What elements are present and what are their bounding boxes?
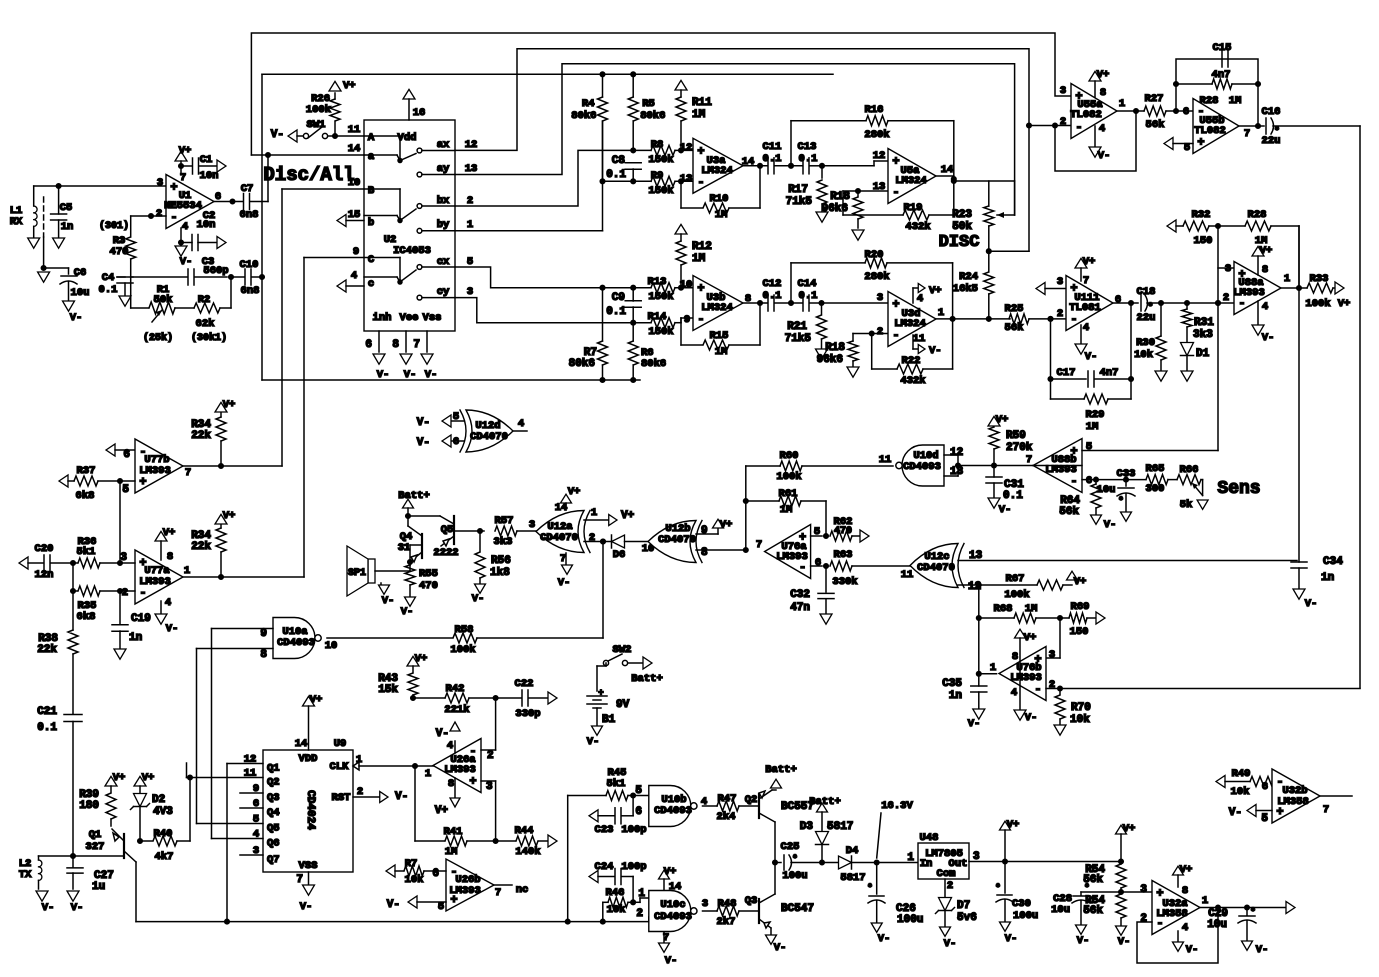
svg-text:R30: R30 — [1136, 337, 1155, 349]
svg-text:5: 5 — [1261, 813, 1268, 825]
svg-text:CD4070: CD4070 — [917, 562, 955, 574]
svg-text:CD4070: CD4070 — [470, 431, 508, 443]
svg-text:C21: C21 — [37, 706, 57, 718]
svg-text:Q4: Q4 — [267, 807, 280, 819]
svg-text:100k: 100k — [450, 644, 475, 656]
svg-text:+: + — [139, 475, 146, 489]
svg-text:4k7: 4k7 — [155, 851, 174, 863]
svg-text:BC547: BC547 — [781, 903, 814, 915]
svg-text:C23: C23 — [595, 824, 614, 836]
svg-text:Q1: Q1 — [89, 829, 102, 841]
svg-text:V-: V- — [395, 791, 408, 803]
svg-text:470: 470 — [110, 246, 129, 258]
svg-text:Batt+: Batt+ — [631, 673, 663, 685]
svg-text:R63: R63 — [834, 549, 853, 561]
svg-text:0.1: 0.1 — [37, 722, 57, 734]
svg-text:5817: 5817 — [827, 821, 853, 833]
svg-text:R4: R4 — [582, 98, 595, 110]
svg-text:V-: V- — [71, 902, 84, 914]
svg-text:1M: 1M — [1229, 95, 1242, 107]
svg-text:56k: 56k — [1005, 322, 1024, 334]
svg-text:11: 11 — [901, 569, 914, 581]
svg-text:LM393: LM393 — [1010, 672, 1042, 684]
svg-text:1n: 1n — [129, 632, 142, 644]
svg-text:470: 470 — [834, 526, 852, 537]
svg-text:6k8: 6k8 — [76, 490, 95, 502]
svg-text:R29: R29 — [1086, 409, 1105, 421]
svg-text:Batt+: Batt+ — [765, 764, 797, 776]
svg-text:R24: R24 — [959, 271, 978, 283]
svg-text:R18: R18 — [825, 342, 845, 354]
svg-text:8: 8 — [1182, 885, 1188, 897]
svg-text:6: 6 — [1262, 781, 1268, 793]
svg-text:LM393: LM393 — [1233, 287, 1265, 299]
svg-text:5: 5 — [467, 256, 473, 268]
svg-text:R12: R12 — [692, 241, 712, 253]
svg-text:100k: 100k — [306, 104, 331, 116]
svg-text:V-: V- — [1262, 332, 1275, 344]
svg-text:CD4093: CD4093 — [903, 461, 941, 473]
svg-text:9: 9 — [701, 525, 708, 537]
svg-text:13: 13 — [465, 163, 478, 175]
svg-text:R19: R19 — [904, 202, 923, 214]
svg-text:12: 12 — [873, 150, 886, 162]
svg-text:Q6: Q6 — [267, 838, 280, 850]
svg-text:5v6: 5v6 — [957, 912, 977, 924]
svg-text:B: B — [368, 185, 375, 197]
svg-text:7: 7 — [1244, 128, 1250, 140]
svg-text:cy: cy — [437, 286, 450, 298]
svg-text:-: - — [892, 186, 899, 200]
svg-text:C30: C30 — [1012, 898, 1031, 910]
svg-text:VSS: VSS — [299, 860, 318, 872]
svg-text:14: 14 — [669, 881, 682, 893]
svg-text:10k: 10k — [607, 904, 626, 916]
svg-text:2: 2 — [487, 750, 494, 762]
svg-text:1n: 1n — [949, 690, 962, 702]
svg-text:2k7: 2k7 — [717, 916, 736, 928]
svg-text:LM393: LM393 — [139, 576, 171, 588]
svg-text:V-: V- — [401, 606, 414, 618]
svg-text:LM324: LM324 — [894, 318, 926, 330]
svg-text:R11: R11 — [692, 97, 712, 109]
svg-text:V-: V- — [300, 901, 313, 913]
svg-text:1: 1 — [1119, 98, 1125, 110]
svg-text:+: + — [892, 155, 899, 169]
svg-text:C14: C14 — [798, 278, 817, 290]
svg-text:6: 6 — [815, 557, 821, 569]
svg-text:R48: R48 — [718, 898, 737, 910]
svg-text:2: 2 — [357, 786, 363, 798]
svg-text:Sens: Sens — [1217, 479, 1260, 499]
svg-text:3: 3 — [1140, 884, 1147, 896]
svg-text:3: 3 — [1049, 649, 1055, 661]
svg-text:5k: 5k — [1180, 499, 1193, 511]
svg-text:*: * — [995, 883, 1000, 893]
svg-text:R41: R41 — [444, 826, 463, 838]
svg-text:R8: R8 — [651, 139, 664, 151]
svg-text:V-: V- — [472, 593, 485, 605]
svg-text:9: 9 — [353, 246, 359, 258]
svg-text:C19: C19 — [131, 613, 151, 625]
svg-text:C7: C7 — [241, 183, 254, 195]
svg-text:R20: R20 — [865, 249, 884, 261]
svg-text:V-: V- — [404, 369, 417, 381]
svg-text:6k8: 6k8 — [77, 611, 96, 623]
svg-text:V-: V- — [944, 938, 957, 950]
svg-text:C10: C10 — [240, 259, 259, 271]
svg-text:4: 4 — [182, 221, 188, 233]
svg-text:R25: R25 — [1005, 303, 1024, 315]
svg-text:8: 8 — [448, 778, 454, 790]
svg-text:96k6: 96k6 — [817, 354, 843, 366]
svg-text:V-: V- — [878, 933, 891, 945]
svg-text:1M: 1M — [715, 346, 728, 358]
svg-text:SW1: SW1 — [307, 119, 326, 131]
svg-text:10k: 10k — [1070, 714, 1090, 726]
svg-text:C8: C8 — [612, 155, 626, 167]
svg-text:0.1: 0.1 — [799, 290, 818, 302]
svg-text:V-: V- — [387, 899, 400, 911]
svg-text:Q1: Q1 — [267, 763, 280, 775]
svg-text:-: - — [1075, 121, 1082, 135]
svg-text:*: * — [1118, 496, 1123, 506]
svg-text:12n: 12n — [35, 569, 54, 581]
svg-text:4: 4 — [1083, 322, 1089, 334]
svg-text:10u: 10u — [1097, 484, 1116, 496]
svg-text:96k6: 96k6 — [822, 203, 848, 215]
svg-text:150k: 150k — [648, 154, 673, 166]
svg-text:C25: C25 — [781, 841, 800, 853]
svg-text:Q5: Q5 — [267, 823, 280, 835]
svg-text:R55: R55 — [419, 568, 438, 580]
svg-text:V-: V- — [1098, 150, 1111, 162]
svg-text:V-: V- — [1104, 519, 1117, 531]
svg-text:4: 4 — [351, 270, 357, 282]
svg-text:b: b — [368, 217, 374, 229]
svg-text:100k: 100k — [1004, 589, 1029, 601]
svg-text:100u: 100u — [1013, 910, 1038, 922]
svg-text:1: 1 — [938, 307, 944, 319]
svg-text:13: 13 — [873, 181, 886, 193]
svg-text:3: 3 — [1057, 276, 1063, 288]
svg-text:4: 4 — [1262, 301, 1268, 313]
svg-text:C13: C13 — [798, 141, 817, 153]
svg-text:10u: 10u — [1051, 904, 1070, 916]
svg-text:Vee: Vee — [400, 312, 419, 324]
svg-text:6: 6 — [635, 806, 642, 818]
svg-text:10n: 10n — [200, 170, 219, 182]
svg-text:CD4093: CD4093 — [654, 805, 692, 817]
svg-text:SP1: SP1 — [348, 568, 366, 579]
svg-text:C33: C33 — [1117, 468, 1136, 480]
svg-text:R61: R61 — [779, 488, 798, 500]
svg-text:V+: V+ — [415, 653, 428, 665]
svg-text:150k: 150k — [648, 326, 673, 338]
svg-text:4: 4 — [165, 597, 171, 609]
svg-text:V-: V- — [271, 129, 284, 141]
svg-text:R31: R31 — [1194, 317, 1214, 329]
svg-text:R23: R23 — [952, 209, 972, 221]
svg-text:-: - — [1070, 475, 1077, 489]
svg-text:150: 150 — [1070, 626, 1089, 638]
svg-text:8: 8 — [701, 547, 708, 559]
svg-text:6n8: 6n8 — [241, 285, 260, 297]
svg-text:R66: R66 — [1180, 464, 1199, 476]
svg-text:0.1: 0.1 — [763, 290, 782, 302]
svg-text:D2: D2 — [152, 794, 165, 806]
svg-text:CD4070: CD4070 — [658, 534, 696, 546]
svg-text:1n: 1n — [61, 221, 74, 233]
svg-text:V+: V+ — [1123, 823, 1136, 835]
svg-text:Vss: Vss — [423, 312, 442, 324]
svg-text:4: 4 — [447, 740, 453, 752]
svg-text:3: 3 — [529, 519, 535, 531]
svg-text:V-: V- — [417, 437, 430, 449]
svg-text:1: 1 — [356, 754, 362, 766]
svg-text:10: 10 — [325, 640, 338, 652]
svg-text:R59: R59 — [1006, 430, 1026, 442]
svg-text:280k: 280k — [864, 129, 889, 141]
svg-text:C34: C34 — [1323, 556, 1343, 568]
svg-text:V+: V+ — [1338, 298, 1351, 310]
svg-text:Q3: Q3 — [745, 895, 758, 907]
svg-text:LM324: LM324 — [895, 175, 927, 187]
svg-text:*: * — [1084, 883, 1089, 893]
svg-text:R2: R2 — [198, 294, 211, 306]
svg-text:by: by — [437, 219, 450, 231]
svg-text:+: + — [170, 181, 177, 195]
svg-text:1M: 1M — [692, 109, 706, 121]
svg-text:LM324: LM324 — [701, 165, 733, 177]
svg-text:V-: V- — [1305, 598, 1318, 610]
svg-text:7: 7 — [296, 874, 303, 886]
svg-text:2222: 2222 — [433, 547, 458, 559]
svg-text:U9: U9 — [334, 738, 347, 750]
svg-text:V+: V+ — [223, 510, 236, 522]
svg-text:6: 6 — [1183, 106, 1189, 118]
svg-text:3: 3 — [877, 292, 883, 304]
svg-text:R70: R70 — [1071, 702, 1091, 714]
svg-text:V+: V+ — [343, 80, 356, 92]
svg-text:62k: 62k — [196, 318, 215, 330]
svg-text:ax: ax — [437, 139, 450, 151]
svg-text:Q2: Q2 — [267, 777, 280, 789]
svg-text:56k: 56k — [1059, 506, 1079, 518]
svg-text:5k1: 5k1 — [607, 778, 626, 790]
svg-text:1M: 1M — [1086, 421, 1099, 433]
svg-text:+: + — [697, 282, 704, 296]
svg-text:10k: 10k — [405, 874, 424, 886]
svg-text:V-: V- — [1118, 936, 1131, 948]
svg-text:D6: D6 — [613, 549, 626, 561]
svg-text:C22: C22 — [515, 678, 534, 690]
svg-text:3k3: 3k3 — [1193, 329, 1213, 341]
svg-text:1: 1 — [184, 565, 190, 577]
svg-text:47n: 47n — [790, 602, 810, 614]
svg-text:V+: V+ — [1007, 819, 1020, 831]
svg-text:TL081: TL081 — [1069, 302, 1101, 314]
svg-text:V+: V+ — [1260, 245, 1273, 257]
svg-text:TX: TX — [19, 869, 32, 881]
svg-text:ay: ay — [437, 163, 450, 175]
svg-text:7: 7 — [1026, 454, 1032, 466]
svg-text:3k3: 3k3 — [494, 536, 513, 548]
svg-text:5: 5 — [635, 785, 642, 797]
svg-text:22k: 22k — [37, 644, 57, 656]
svg-text:C16: C16 — [1262, 106, 1281, 118]
svg-text:D4: D4 — [846, 845, 859, 857]
svg-text:14: 14 — [295, 738, 308, 750]
svg-text:R69: R69 — [1071, 601, 1090, 613]
svg-text:80k6: 80k6 — [641, 358, 666, 370]
svg-text:11: 11 — [879, 454, 892, 466]
svg-text:3: 3 — [1060, 85, 1066, 97]
svg-text:-: - — [697, 175, 704, 189]
svg-text:RST: RST — [332, 792, 351, 804]
svg-text:C4: C4 — [102, 272, 115, 284]
svg-text:NE5534: NE5534 — [164, 200, 202, 212]
svg-text:V-: V- — [929, 345, 942, 357]
svg-text:270k: 270k — [1006, 442, 1033, 454]
svg-text:V-: V- — [999, 504, 1012, 516]
svg-text:14: 14 — [941, 164, 954, 176]
svg-text:R47: R47 — [718, 793, 737, 805]
svg-text:V+: V+ — [1024, 632, 1037, 644]
svg-text:5: 5 — [122, 484, 129, 496]
svg-text:1n: 1n — [1321, 572, 1334, 584]
svg-text:R37: R37 — [77, 465, 96, 477]
svg-text:56k: 56k — [1146, 119, 1165, 131]
svg-text:2: 2 — [1223, 292, 1229, 304]
svg-text:16.3V: 16.3V — [881, 800, 913, 812]
svg-text:C: C — [368, 254, 375, 266]
svg-text:(25k): (25k) — [143, 332, 173, 344]
svg-text:V+: V+ — [929, 285, 942, 297]
svg-text:C15: C15 — [1213, 42, 1232, 54]
svg-text:V-: V- — [1005, 933, 1018, 945]
svg-text:D7: D7 — [957, 900, 970, 912]
svg-text:R42: R42 — [446, 683, 465, 695]
svg-text:15: 15 — [348, 209, 361, 221]
svg-text:4: 4 — [1011, 687, 1017, 699]
svg-text:1k8: 1k8 — [490, 567, 510, 579]
svg-text:-: - — [697, 313, 704, 327]
svg-text:U10c: U10c — [660, 899, 685, 911]
svg-text:+: + — [1197, 136, 1204, 150]
svg-text:150k: 150k — [648, 291, 673, 303]
svg-text:100p: 100p — [621, 824, 646, 836]
svg-text:-: - — [139, 586, 146, 600]
svg-text:LM358: LM358 — [1156, 908, 1188, 920]
svg-text:V-: V- — [1256, 944, 1269, 956]
svg-text:C35: C35 — [942, 678, 962, 690]
svg-text:22u: 22u — [1262, 135, 1281, 147]
svg-text:+: + — [469, 775, 476, 789]
svg-text:6n8: 6n8 — [240, 209, 259, 221]
svg-text:V-: V- — [70, 312, 83, 324]
svg-text:V-: V- — [166, 623, 179, 635]
svg-text:5817: 5817 — [840, 872, 865, 884]
svg-text:1M: 1M — [1025, 603, 1038, 615]
svg-text:0.1: 0.1 — [99, 284, 118, 296]
svg-text:150k: 150k — [648, 185, 673, 197]
svg-text:4V3: 4V3 — [153, 806, 173, 818]
svg-text:cx: cx — [437, 256, 450, 268]
svg-text:150: 150 — [1194, 235, 1213, 247]
svg-text:1u: 1u — [92, 881, 105, 893]
svg-text:R44: R44 — [515, 825, 534, 837]
svg-text:80k6: 80k6 — [571, 110, 596, 122]
svg-text:CLK: CLK — [330, 761, 350, 773]
svg-text:TL082: TL082 — [1194, 125, 1226, 137]
svg-text:R22: R22 — [902, 355, 921, 367]
svg-text:R18: R18 — [830, 191, 850, 203]
svg-text:8: 8 — [392, 339, 399, 351]
svg-text:LM324: LM324 — [701, 302, 733, 314]
svg-text:V-: V- — [42, 902, 55, 914]
svg-text:CD4024: CD4024 — [304, 790, 316, 830]
svg-text:9: 9 — [684, 314, 690, 326]
svg-text:1: 1 — [1284, 273, 1290, 285]
svg-text:C24: C24 — [595, 861, 614, 873]
svg-text:80k6: 80k6 — [640, 110, 665, 122]
svg-text:C6: C6 — [74, 267, 87, 279]
svg-text:10: 10 — [680, 279, 693, 291]
svg-text:50k: 50k — [154, 294, 173, 306]
svg-text:V+: V+ — [1180, 864, 1193, 876]
svg-text:In: In — [920, 858, 933, 870]
svg-text:V-: V- — [436, 728, 449, 740]
svg-text:V-: V- — [1186, 944, 1199, 956]
svg-text:180: 180 — [79, 800, 99, 812]
svg-text:R17: R17 — [788, 184, 808, 196]
svg-text:7: 7 — [185, 467, 191, 479]
svg-text:+: + — [697, 144, 704, 158]
svg-text:4: 4 — [1182, 922, 1188, 934]
svg-text:13: 13 — [950, 466, 964, 478]
svg-text:6: 6 — [365, 339, 372, 351]
svg-text:D1: D1 — [1196, 348, 1210, 360]
svg-text:280k: 280k — [864, 271, 889, 283]
svg-text:0.1: 0.1 — [763, 153, 782, 165]
svg-text:100u: 100u — [897, 914, 923, 926]
svg-text:100k: 100k — [1305, 298, 1330, 310]
svg-text:1: 1 — [638, 888, 645, 900]
svg-text:330k: 330k — [832, 576, 857, 588]
svg-text:7: 7 — [413, 339, 420, 351]
svg-text:Batt+: Batt+ — [809, 796, 841, 808]
svg-text:R7: R7 — [405, 858, 418, 870]
svg-text:V-: V- — [558, 577, 571, 589]
svg-text:3: 3 — [486, 781, 493, 793]
svg-text:5k1: 5k1 — [77, 546, 96, 558]
svg-text:V+: V+ — [664, 866, 677, 878]
svg-text:(30k1): (30k1) — [191, 332, 227, 344]
svg-text:7: 7 — [756, 539, 762, 551]
svg-text:12: 12 — [680, 142, 693, 154]
svg-text:-: - — [1034, 683, 1041, 697]
svg-text:(301): (301) — [99, 220, 129, 232]
svg-text:R56: R56 — [491, 555, 511, 567]
svg-text:12: 12 — [950, 447, 963, 459]
svg-text:R10: R10 — [710, 193, 729, 205]
svg-text:R33: R33 — [1310, 273, 1329, 285]
svg-text:+: + — [892, 298, 899, 312]
svg-text:CD4070: CD4070 — [540, 532, 578, 544]
svg-text:V+: V+ — [113, 772, 126, 784]
svg-text:LM393: LM393 — [444, 764, 476, 776]
